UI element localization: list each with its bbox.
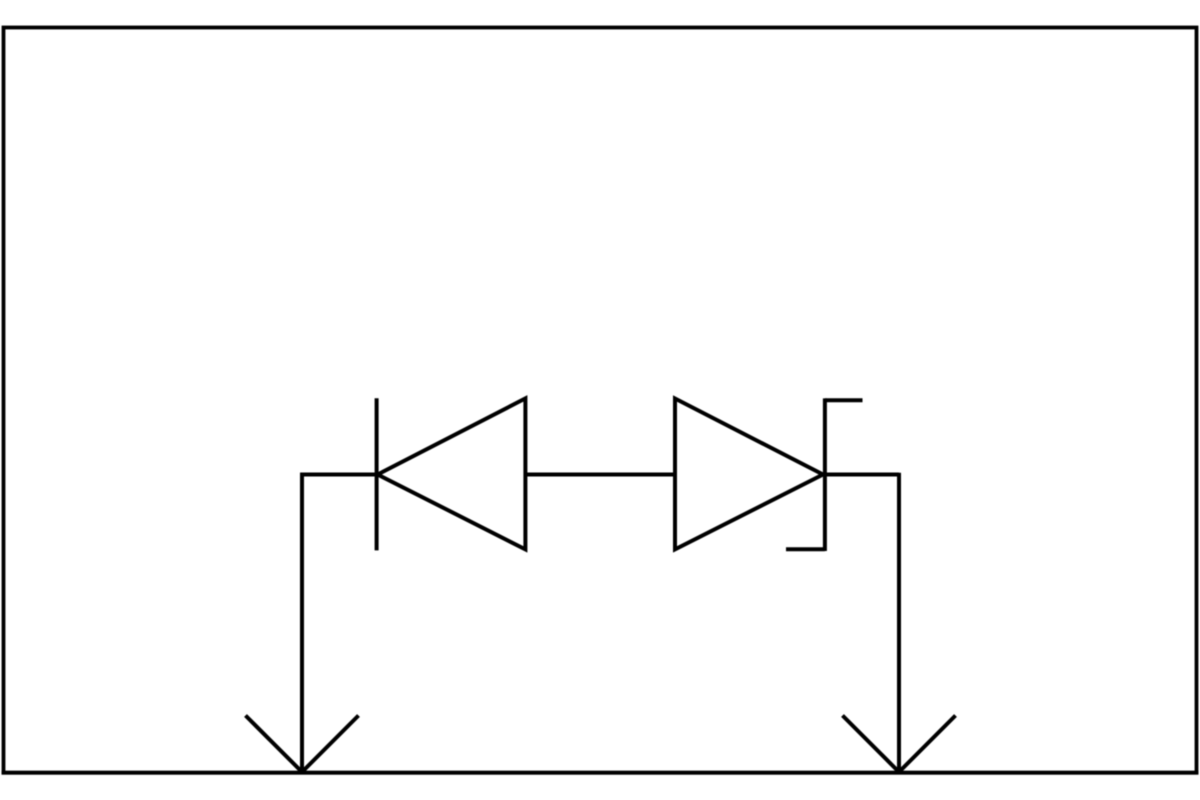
zener diode D2 (points right, cathode at node B) [675, 398, 863, 551]
ground arrow left (connection to bottom rail) [246, 716, 359, 773]
wire: node B vertical drop (right branch) [897, 473, 901, 772]
wire: node B horizontal segment [825, 473, 899, 477]
ground bus (bottom rail) [2, 771, 1199, 775]
wire: node A horizontal segment to D1 cathode [300, 473, 378, 477]
diode D1 (points left, cathode at node A) [377, 398, 526, 550]
ground arrow right (connection to bottom rail) [843, 716, 956, 773]
wire: anode D1 to anode D2 [525, 473, 675, 477]
wire: node A vertical drop (left branch) [300, 473, 304, 772]
